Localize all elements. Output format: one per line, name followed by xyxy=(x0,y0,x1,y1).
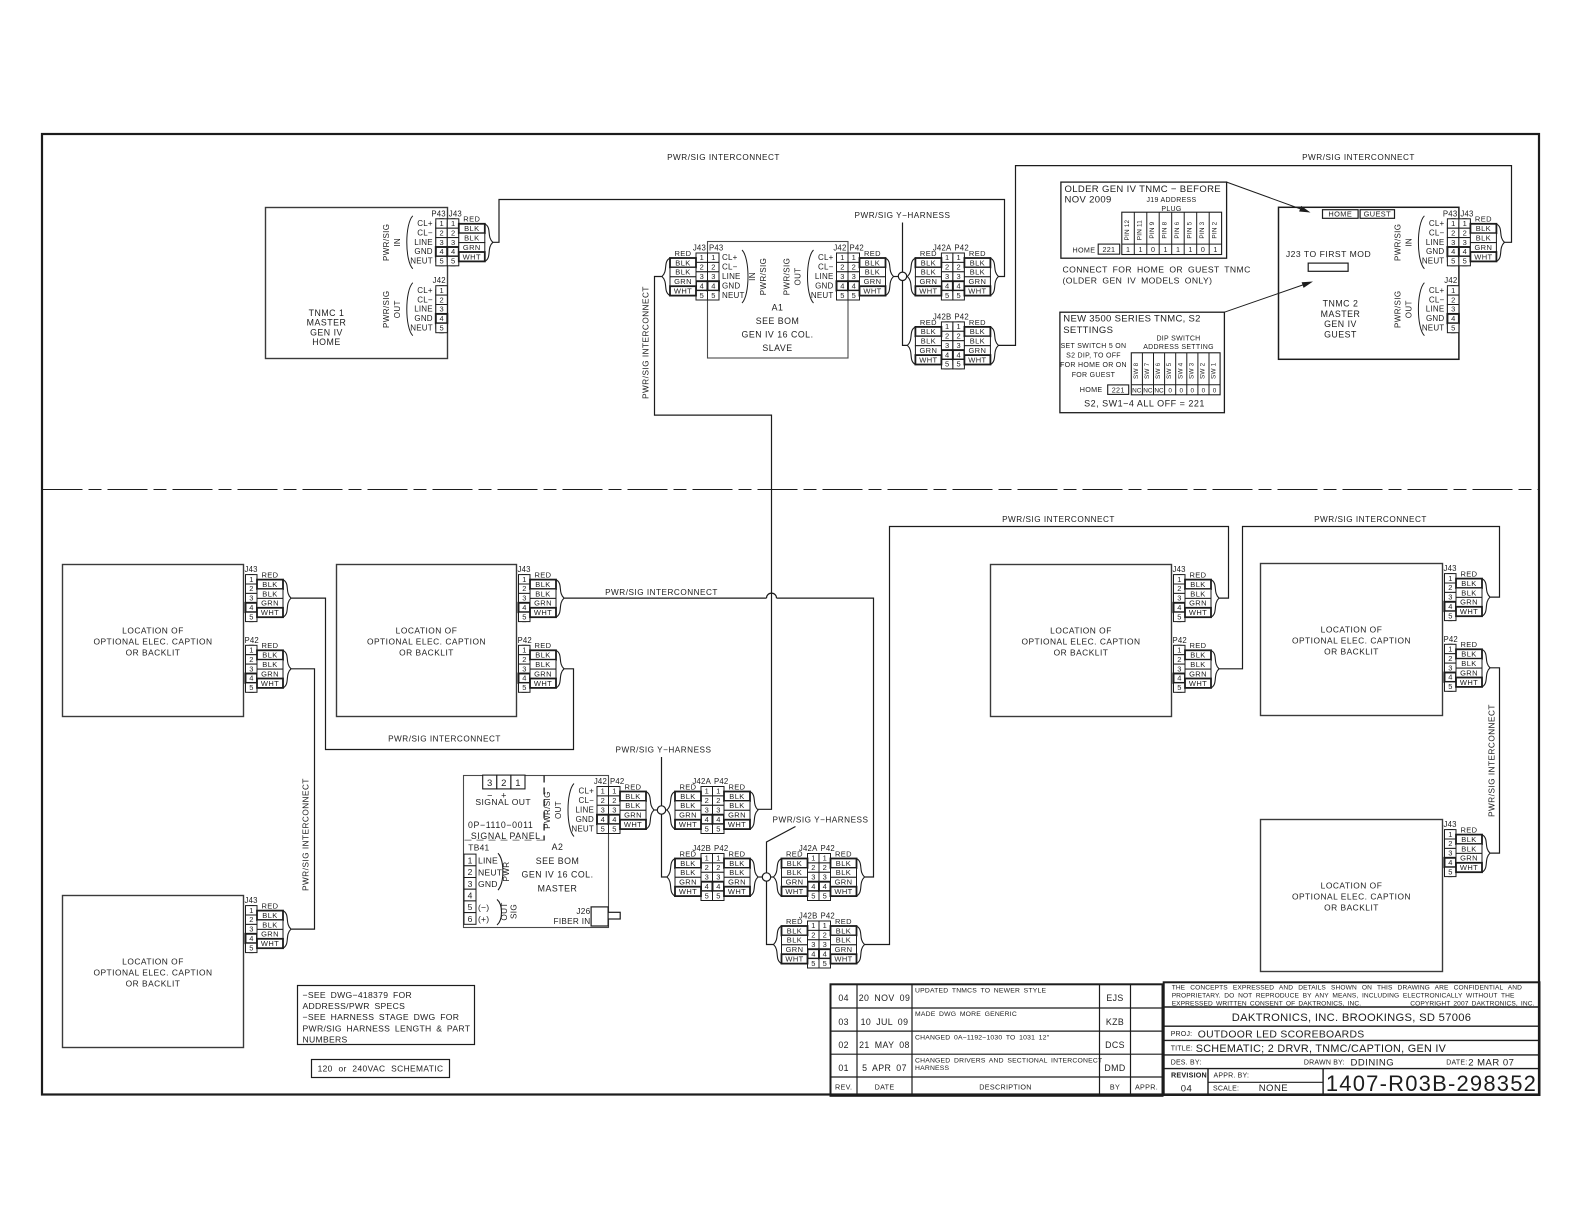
svg-text:5: 5 xyxy=(440,324,444,333)
svg-text:P42: P42 xyxy=(610,777,624,786)
svg-text:2: 2 xyxy=(705,796,709,805)
svg-text:BLK: BLK xyxy=(464,224,479,233)
svg-text:BLK: BLK xyxy=(1476,234,1491,243)
svg-text:SIGNAL OUT: SIGNAL OUT xyxy=(475,797,531,807)
svg-text:0: 0 xyxy=(1202,387,1206,394)
svg-text:4: 4 xyxy=(945,350,949,359)
svg-text:1: 1 xyxy=(1126,245,1130,254)
svg-text:J43: J43 xyxy=(1444,564,1457,573)
svg-text:4: 4 xyxy=(468,891,473,901)
svg-text:APPR.: APPR. xyxy=(1135,1082,1158,1091)
svg-text:BLK: BLK xyxy=(262,911,277,920)
svg-text:1: 1 xyxy=(1188,245,1192,254)
caption box 6 (lower right) LOCATION OF OPTIONAL ELEC. CAPTION OR BACKLIT xyxy=(1261,820,1443,972)
svg-text:SEE BOM: SEE BOM xyxy=(756,316,800,326)
svg-text:BLK: BLK xyxy=(865,258,880,267)
svg-text:GRN: GRN xyxy=(728,878,746,887)
svg-text:3: 3 xyxy=(852,272,856,281)
signal out terminal 3 2 1 xyxy=(475,775,531,807)
svg-text:PIN 5: PIN 5 xyxy=(1186,221,1193,238)
svg-text:OR BACKLIT: OR BACKLIT xyxy=(126,979,181,989)
svg-text:5: 5 xyxy=(716,891,720,900)
svg-text:4: 4 xyxy=(1448,858,1452,867)
svg-text:4: 4 xyxy=(957,281,961,290)
svg-text:GRN: GRN xyxy=(968,277,986,286)
svg-text:5: 5 xyxy=(957,360,961,369)
svg-text:DDINING: DDINING xyxy=(1351,1058,1395,1069)
svg-text:J42: J42 xyxy=(594,777,607,786)
svg-text:BLK: BLK xyxy=(464,234,479,243)
svg-text:3: 3 xyxy=(823,940,827,949)
svg-text:BLK: BLK xyxy=(1190,589,1205,598)
svg-text:3: 3 xyxy=(440,305,444,314)
svg-text:2: 2 xyxy=(705,863,709,872)
svg-text:DRAWN BY:: DRAWN BY: xyxy=(1304,1060,1345,1067)
svg-text:BLK: BLK xyxy=(680,859,695,868)
svg-text:0: 0 xyxy=(1151,245,1155,254)
svg-text:BLK: BLK xyxy=(921,258,936,267)
svg-text:SCALE:: SCALE: xyxy=(1213,1086,1239,1093)
svg-text:LOCATION OF: LOCATION OF xyxy=(1321,625,1383,635)
svg-text:PWR/SIG: PWR/SIG xyxy=(543,791,552,828)
svg-text:PWR/SIG INTERCONNECT: PWR/SIG INTERCONNECT xyxy=(667,153,780,162)
signal panel label 0P-1110-0011 xyxy=(465,776,545,841)
svg-text:221: 221 xyxy=(1112,386,1125,395)
svg-text:BLK: BLK xyxy=(535,660,550,669)
svg-text:HOME: HOME xyxy=(1073,246,1096,255)
svg-text:5: 5 xyxy=(1177,683,1181,692)
svg-text:NEUT: NEUT xyxy=(410,324,433,333)
svg-text:MASTER: MASTER xyxy=(1321,309,1361,319)
svg-text:GND: GND xyxy=(414,314,432,323)
svg-text:BLK: BLK xyxy=(921,337,936,346)
svg-text:REV.: REV. xyxy=(835,1082,852,1091)
svg-text:UPDATED TNMCS TO NEWER STYLE: UPDATED TNMCS TO NEWER STYLE xyxy=(915,988,1046,995)
connector J42 TNMC1 pwr/sig out xyxy=(382,276,448,336)
svg-text:2: 2 xyxy=(823,931,827,940)
svg-text:J43: J43 xyxy=(693,244,706,253)
svg-text:4: 4 xyxy=(522,674,526,683)
connector J42B/P42 #1 (bottom y-harness) xyxy=(667,844,758,901)
svg-text:J43: J43 xyxy=(1460,209,1473,218)
arrow new-tnmc to J23 xyxy=(1224,279,1314,313)
svg-text:TNMC 2: TNMC 2 xyxy=(1323,299,1359,309)
svg-text:2: 2 xyxy=(612,796,616,805)
svg-text:(+): (+) xyxy=(478,914,489,924)
svg-text:GEN IV 16 COL.: GEN IV 16 COL. xyxy=(521,870,593,880)
svg-text:GND: GND xyxy=(1426,314,1444,323)
svg-text:P42: P42 xyxy=(1444,635,1458,644)
svg-text:2: 2 xyxy=(711,263,715,272)
svg-text:04: 04 xyxy=(838,993,849,1003)
svg-text:GRN: GRN xyxy=(534,599,552,608)
svg-text:4: 4 xyxy=(249,674,253,683)
caption box 3 (lower left) LOCATION OF OPTIONAL ELEC. CAPTION OR BACKLIT xyxy=(63,896,244,1048)
svg-text:CONNECT FOR HOME OR GUEST TNMC: CONNECT FOR HOME OR GUEST TNMC xyxy=(1063,265,1251,275)
svg-text:RED: RED xyxy=(969,318,986,327)
svg-text:J23 TO FIRST MOD: J23 TO FIRST MOD xyxy=(1286,249,1371,259)
svg-text:2: 2 xyxy=(811,863,815,872)
svg-text:GND: GND xyxy=(1426,247,1444,256)
svg-text:HARNESS: HARNESS xyxy=(915,1065,950,1072)
connector J43 caption box 1 xyxy=(245,565,292,622)
svg-text:5: 5 xyxy=(1177,612,1181,621)
svg-text:RED: RED xyxy=(920,249,937,258)
svg-text:GRN: GRN xyxy=(261,669,279,678)
svg-text:CL+: CL+ xyxy=(579,787,595,796)
svg-text:4: 4 xyxy=(601,815,605,824)
svg-text:LOCATION OF: LOCATION OF xyxy=(122,957,184,967)
svg-text:J43: J43 xyxy=(1444,820,1457,829)
svg-text:OUT: OUT xyxy=(794,267,803,285)
svg-text:GRN: GRN xyxy=(261,930,279,939)
svg-text:LOCATION OF: LOCATION OF xyxy=(1321,881,1383,891)
svg-text:2: 2 xyxy=(1451,295,1455,304)
svg-text:2: 2 xyxy=(957,332,961,341)
svg-text:WHT: WHT xyxy=(261,939,279,948)
svg-text:4: 4 xyxy=(612,815,616,824)
wire A2 P42-3 to Y-harness junction 1 xyxy=(654,809,667,811)
svg-text:5: 5 xyxy=(1448,611,1452,620)
connector P43/J43 TNMC2 pwr/sig in xyxy=(1393,209,1504,268)
svg-text:0: 0 xyxy=(1213,387,1217,394)
wire J42B#1 right to junction 2 and J42A#2 left xyxy=(758,876,774,878)
svg-text:1: 1 xyxy=(1448,830,1452,839)
svg-text:P43: P43 xyxy=(709,244,723,253)
svg-text:NEUT: NEUT xyxy=(478,867,503,877)
svg-text:2: 2 xyxy=(1451,228,1455,237)
svg-text:BLK: BLK xyxy=(921,327,936,336)
svg-text:5: 5 xyxy=(1451,324,1455,333)
svg-text:3: 3 xyxy=(249,594,253,603)
svg-text:PIN 8: PIN 8 xyxy=(1162,221,1169,238)
svg-text:RED: RED xyxy=(1189,641,1206,650)
svg-text:IN: IN xyxy=(393,238,402,247)
svg-text:BLK: BLK xyxy=(865,268,880,277)
wire junction down to J42B P42 (top) xyxy=(903,277,908,346)
svg-text:10 JUL 09: 10 JUL 09 xyxy=(861,1017,909,1027)
svg-text:REVISION: REVISION xyxy=(1171,1071,1207,1080)
svg-text:CL−: CL− xyxy=(722,263,738,272)
svg-text:CL+: CL+ xyxy=(1429,219,1445,228)
svg-text:PIN 3: PIN 3 xyxy=(1199,221,1206,238)
svg-text:BLK: BLK xyxy=(729,859,744,868)
svg-text:GRN: GRN xyxy=(261,599,279,608)
svg-text:DMD: DMD xyxy=(1104,1063,1125,1073)
svg-text:WHT: WHT xyxy=(1460,678,1478,687)
svg-text:2: 2 xyxy=(823,863,827,872)
revision history table xyxy=(831,984,1163,1096)
svg-text:1: 1 xyxy=(612,787,616,796)
svg-text:1: 1 xyxy=(716,787,720,796)
svg-text:GRN: GRN xyxy=(1460,598,1478,607)
svg-text:RED: RED xyxy=(1460,640,1477,649)
svg-text:5: 5 xyxy=(811,959,815,968)
connector J43 caption box 4 xyxy=(1173,565,1220,622)
svg-text:J42: J42 xyxy=(833,244,846,253)
svg-text:GRN: GRN xyxy=(919,277,937,286)
svg-text:BLK: BLK xyxy=(921,268,936,277)
svg-text:3: 3 xyxy=(1177,594,1181,603)
svg-text:5: 5 xyxy=(945,360,949,369)
svg-text:5: 5 xyxy=(249,943,253,952)
caption CONNECT FOR HOME OR GUEST TNMC xyxy=(1063,265,1251,286)
svg-text:3: 3 xyxy=(840,272,844,281)
svg-text:CL−: CL− xyxy=(579,796,595,805)
caption box 5 (upper right) LOCATION OF OPTIONAL ELEC. CAPTION OR BACKLIT xyxy=(1261,564,1443,716)
svg-text:(OLDER GEN IV MODELS ONLY): (OLDER GEN IV MODELS ONLY) xyxy=(1063,276,1213,286)
drawing border frame xyxy=(42,134,1539,1095)
svg-text:5: 5 xyxy=(945,291,949,300)
svg-text:J43: J43 xyxy=(449,209,462,218)
svg-text:2: 2 xyxy=(451,228,455,237)
svg-text:J26: J26 xyxy=(576,907,590,916)
svg-text:J43: J43 xyxy=(1173,565,1186,574)
svg-text:RED: RED xyxy=(835,917,852,926)
svg-text:1: 1 xyxy=(1448,645,1452,654)
svg-text:LINE: LINE xyxy=(575,806,594,815)
svg-text:4: 4 xyxy=(1177,674,1181,683)
svg-text:SW 4: SW 4 xyxy=(1177,362,1184,379)
svg-text:3: 3 xyxy=(612,806,616,815)
svg-text:2: 2 xyxy=(249,584,253,593)
svg-text:WHT: WHT xyxy=(785,955,803,964)
svg-text:5: 5 xyxy=(705,824,709,833)
svg-text:RED: RED xyxy=(1189,571,1206,580)
connector P42 caption box 5 xyxy=(1444,635,1491,692)
connector J42B/P42 (top y-harness) xyxy=(907,312,998,369)
svg-text:WHT: WHT xyxy=(834,955,852,964)
J19 address plug dip table xyxy=(1122,212,1222,254)
svg-text:2: 2 xyxy=(501,778,506,789)
svg-text:5: 5 xyxy=(249,612,253,621)
svg-text:WHT: WHT xyxy=(534,679,552,688)
svg-text:PWR/SIG: PWR/SIG xyxy=(759,258,768,295)
svg-text:PWR/SIG INTERCONNECT: PWR/SIG INTERCONNECT xyxy=(605,588,718,597)
svg-text:SCHEMATIC; 2 DRVR, TNMC/CAPTIO: SCHEMATIC; 2 DRVR, TNMC/CAPTION, GEN IV xyxy=(1196,1043,1447,1055)
svg-text:RED: RED xyxy=(864,249,881,258)
svg-text:BLK: BLK xyxy=(1461,579,1476,588)
svg-text:BLK: BLK xyxy=(1190,580,1205,589)
svg-text:WHT: WHT xyxy=(968,355,986,364)
svg-text:PWR/SIG: PWR/SIG xyxy=(1393,290,1402,327)
connector J42A/P42 #1 (bottom y-harness) xyxy=(667,777,758,834)
svg-text:5: 5 xyxy=(840,291,844,300)
svg-text:WHT: WHT xyxy=(624,820,642,829)
svg-text:4: 4 xyxy=(811,882,815,891)
svg-text:CL−: CL− xyxy=(417,228,433,237)
svg-text:4: 4 xyxy=(1463,247,1467,256)
svg-text:OUT: OUT xyxy=(554,801,563,819)
svg-text:BLK: BLK xyxy=(787,859,802,868)
svg-text:RED: RED xyxy=(261,902,278,911)
svg-text:BLK: BLK xyxy=(836,868,851,877)
svg-text:WHT: WHT xyxy=(463,252,481,261)
svg-text:P43: P43 xyxy=(431,209,445,218)
svg-text:GRN: GRN xyxy=(1474,243,1492,252)
wire leader diagonal + drop to J42B#2 xyxy=(767,827,796,945)
svg-text:LINE: LINE xyxy=(478,856,498,866)
svg-text:0: 0 xyxy=(1191,387,1195,394)
svg-text:RED: RED xyxy=(835,849,852,858)
svg-text:DES. BY:: DES. BY: xyxy=(1171,1060,1202,1067)
svg-text:SETTINGS: SETTINGS xyxy=(1063,325,1113,336)
title block xyxy=(1164,982,1540,1096)
svg-text:BLK: BLK xyxy=(262,920,277,929)
svg-text:BLK: BLK xyxy=(680,868,695,877)
S2 dip switch table xyxy=(1131,353,1220,395)
svg-text:4: 4 xyxy=(823,949,827,958)
svg-text:5: 5 xyxy=(249,683,253,692)
svg-text:RED: RED xyxy=(1460,826,1477,835)
svg-text:120 or 240VAC SCHEMATIC: 120 or 240VAC SCHEMATIC xyxy=(318,1064,444,1074)
svg-text:1: 1 xyxy=(1176,245,1180,254)
svg-text:2: 2 xyxy=(1448,839,1452,848)
svg-text:P42: P42 xyxy=(821,912,835,921)
svg-text:BLK: BLK xyxy=(1461,650,1476,659)
svg-text:4: 4 xyxy=(1448,673,1452,682)
svg-text:LINE: LINE xyxy=(722,272,741,281)
svg-text:THE CONCEPTS EXPRESSED AND DET: THE CONCEPTS EXPRESSED AND DETAILS SHOWN… xyxy=(1172,984,1522,991)
svg-text:DIP SWITCH: DIP SWITCH xyxy=(1156,336,1200,343)
HOME plug label xyxy=(1323,210,1359,219)
svg-text:CHANGED 0A−1192−1030 TO 1031 1: CHANGED 0A−1192−1030 TO 1031 12″ xyxy=(915,1034,1050,1041)
junction node (bottom y-harness 2) xyxy=(762,873,770,881)
connector J43 caption box 3 xyxy=(245,896,292,953)
svg-text:GND: GND xyxy=(414,247,432,256)
svg-text:4: 4 xyxy=(945,281,949,290)
svg-text:1: 1 xyxy=(823,921,827,930)
svg-text:6: 6 xyxy=(468,914,473,924)
svg-text:P42: P42 xyxy=(518,636,532,645)
svg-text:NONE: NONE xyxy=(1259,1083,1288,1094)
svg-text:4: 4 xyxy=(1448,602,1452,611)
svg-text:3: 3 xyxy=(823,873,827,882)
svg-text:S2 DIP, TO OFF: S2 DIP, TO OFF xyxy=(1066,353,1121,360)
svg-text:PWR/SIG Y−HARNESS: PWR/SIG Y−HARNESS xyxy=(855,211,951,220)
svg-text:PWR/SIG: PWR/SIG xyxy=(382,290,391,327)
svg-text:3: 3 xyxy=(705,873,709,882)
svg-text:SET SWITCH 5 ON: SET SWITCH 5 ON xyxy=(1061,343,1127,350)
svg-text:LOCATION OF: LOCATION OF xyxy=(1050,626,1112,636)
svg-text:PWR/SIG: PWR/SIG xyxy=(1393,224,1402,261)
connector J42/P42 A2 pwr/sig out xyxy=(543,777,654,837)
NEW 3500 SERIES TNMC S2 SETTINGS box xyxy=(1060,312,1225,413)
svg-text:WHT: WHT xyxy=(674,287,692,296)
svg-text:DCS: DCS xyxy=(1105,1040,1125,1050)
svg-text:4: 4 xyxy=(522,603,526,612)
svg-text:1: 1 xyxy=(440,286,444,295)
svg-text:2: 2 xyxy=(1177,655,1181,664)
svg-text:BLK: BLK xyxy=(535,580,550,589)
svg-text:GRN: GRN xyxy=(786,878,804,887)
svg-text:2: 2 xyxy=(1177,584,1181,593)
svg-text:OR BACKLIT: OR BACKLIT xyxy=(1324,903,1379,913)
svg-text:FIBER IN: FIBER IN xyxy=(554,917,591,926)
svg-text:5: 5 xyxy=(1463,257,1467,266)
svg-text:GRN: GRN xyxy=(679,811,697,820)
svg-text:2: 2 xyxy=(522,655,526,664)
svg-text:1: 1 xyxy=(716,854,720,863)
svg-text:BLK: BLK xyxy=(836,859,851,868)
svg-text:WHT: WHT xyxy=(919,287,937,296)
svg-text:P43: P43 xyxy=(1443,209,1457,218)
svg-text:WHT: WHT xyxy=(1460,863,1478,872)
svg-text:WHT: WHT xyxy=(863,287,881,296)
svg-text:PWR/SIG INTERCONNECT: PWR/SIG INTERCONNECT xyxy=(642,286,651,399)
svg-text:HOME: HOME xyxy=(312,337,340,347)
A2 driver box SEE BOM GEN IV 16 COL. MASTER xyxy=(464,776,609,928)
svg-text:3: 3 xyxy=(811,873,815,882)
svg-text:3: 3 xyxy=(1451,305,1455,314)
svg-text:OUT: OUT xyxy=(393,300,402,318)
notes box SEE DWG-418379 xyxy=(298,986,475,1045)
svg-text:PIN 2: PIN 2 xyxy=(1211,221,1218,238)
svg-text:3: 3 xyxy=(451,238,455,247)
svg-text:NEUT: NEUT xyxy=(1422,324,1445,333)
wire caption2 J43-3 to J42A#2 right (with hop over A1 feed) xyxy=(564,597,767,599)
svg-text:WHT: WHT xyxy=(834,887,852,896)
svg-text:BLK: BLK xyxy=(787,936,802,945)
svg-text:5: 5 xyxy=(440,257,444,266)
svg-text:4: 4 xyxy=(1177,603,1181,612)
svg-text:OUT: OUT xyxy=(1404,300,1413,318)
svg-text:CL+: CL+ xyxy=(1429,286,1445,295)
svg-text:GRN: GRN xyxy=(864,277,882,286)
svg-text:GEN IV: GEN IV xyxy=(1324,319,1357,329)
svg-text:3: 3 xyxy=(468,879,473,889)
caption box 1 (upper left) LOCATION OF OPTIONAL ELEC. CAPTION OR BACKLIT xyxy=(63,565,244,717)
svg-text:J43: J43 xyxy=(245,565,258,574)
svg-text:GND: GND xyxy=(815,281,833,290)
svg-text:BLK: BLK xyxy=(1190,660,1205,669)
svg-text:OPTIONAL ELEC. CAPTION: OPTIONAL ELEC. CAPTION xyxy=(93,968,212,978)
svg-text:RED: RED xyxy=(920,318,937,327)
svg-text:1: 1 xyxy=(700,253,704,262)
svg-text:3: 3 xyxy=(249,925,253,934)
svg-text:1: 1 xyxy=(957,322,961,331)
svg-text:221: 221 xyxy=(1102,245,1115,254)
svg-text:GRN: GRN xyxy=(1189,599,1207,608)
svg-text:NC: NC xyxy=(1132,387,1142,394)
svg-text:1: 1 xyxy=(823,854,827,863)
svg-text:TITLE:: TITLE: xyxy=(1171,1046,1193,1053)
svg-text:2: 2 xyxy=(249,655,253,664)
svg-text:3: 3 xyxy=(522,594,526,603)
svg-text:NUMBERS: NUMBERS xyxy=(303,1034,348,1044)
connector J43 caption box 5 xyxy=(1444,564,1491,621)
svg-text:BLK: BLK xyxy=(836,936,851,945)
connector J42A/P42 (top y-harness) xyxy=(907,244,998,301)
svg-text:BLK: BLK xyxy=(970,268,985,277)
svg-text:GRN: GRN xyxy=(835,878,853,887)
svg-text:2: 2 xyxy=(440,228,444,237)
svg-text:LOCATION OF: LOCATION OF xyxy=(122,626,184,636)
svg-text:1: 1 xyxy=(515,778,520,789)
svg-text:PWR/SIG: PWR/SIG xyxy=(382,224,391,261)
svg-text:PWR/SIG INTERCONNECT: PWR/SIG INTERCONNECT xyxy=(1302,153,1415,162)
svg-text:1: 1 xyxy=(1213,245,1217,254)
section divider dashed line xyxy=(43,489,1540,491)
svg-text:GRN: GRN xyxy=(674,277,692,286)
svg-text:2: 2 xyxy=(840,263,844,272)
svg-text:5: 5 xyxy=(823,891,827,900)
svg-text:A2: A2 xyxy=(552,842,564,852)
svg-text:OPTIONAL ELEC. CAPTION: OPTIONAL ELEC. CAPTION xyxy=(1292,636,1411,646)
svg-text:P42: P42 xyxy=(1173,636,1187,645)
connector P42 caption box 2 xyxy=(518,636,565,693)
HOME 221 value (older tnmc) xyxy=(1073,244,1120,254)
